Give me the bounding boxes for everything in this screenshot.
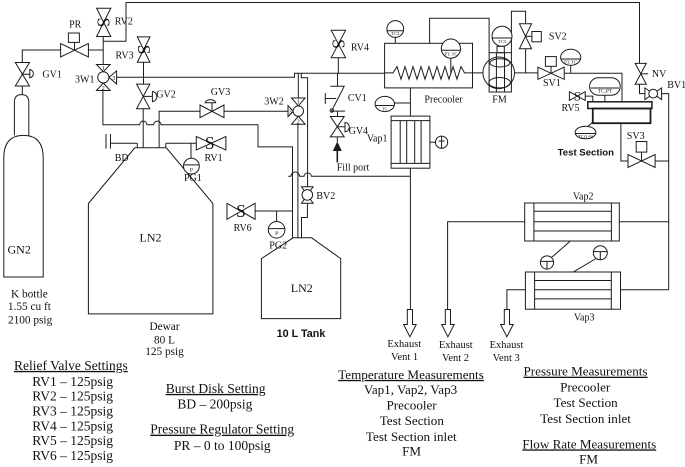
svg-text:SV3: SV3 [627, 131, 645, 142]
svg-text:Vap1: Vap1 [367, 134, 388, 145]
svg-text:PR – 0 to 100psig: PR – 0 to 100psig [174, 438, 271, 453]
svg-text:Vap2: Vap2 [573, 192, 594, 203]
svg-text:Flow Rate Measurements: Flow Rate Measurements [522, 436, 656, 451]
svg-text:RV4: RV4 [351, 43, 369, 54]
svg-text:PR: PR [69, 19, 82, 30]
svg-text:Vap1, Vap2, Vap3: Vap1, Vap2, Vap3 [364, 382, 458, 397]
svg-text:Vent 2: Vent 2 [442, 353, 469, 364]
svg-text:S: S [205, 133, 215, 153]
svg-text:80 L: 80 L [154, 335, 175, 347]
svg-text:S: S [93, 18, 113, 28]
svg-text:BV2: BV2 [316, 191, 335, 202]
svg-text:Test Section: Test Section [554, 395, 619, 410]
svg-text:TC,PT: TC,PT [598, 89, 613, 95]
svg-text:LN2: LN2 [140, 231, 162, 245]
svg-text:TC: TC [382, 106, 388, 111]
svg-text:RV1 – 125psig: RV1 – 125psig [32, 374, 113, 389]
svg-text:S: S [574, 89, 581, 103]
svg-text:3W2: 3W2 [264, 96, 283, 107]
svg-text:FM: FM [492, 95, 507, 106]
svg-text:Vent 1: Vent 1 [391, 352, 418, 363]
svg-text:RV6: RV6 [234, 223, 252, 234]
svg-text:10 L Tank: 10 L Tank [277, 328, 327, 340]
svg-text:2: 2 [297, 119, 300, 125]
svg-text:1.55 cu ft: 1.55 cu ft [8, 301, 52, 313]
svg-text:RV5 – 125psig: RV5 – 125psig [32, 433, 113, 448]
svg-text:Test Section: Test Section [558, 148, 614, 159]
svg-text:Relief Valve Settings: Relief Valve Settings [14, 358, 128, 373]
svg-text:GV2: GV2 [156, 89, 175, 100]
svg-text:Exhaust: Exhaust [439, 340, 473, 351]
svg-text:RV4 – 125psig: RV4 – 125psig [32, 418, 113, 433]
svg-text:3W1: 3W1 [75, 75, 94, 86]
svg-text:Precooler: Precooler [560, 380, 611, 395]
svg-text:BD – 200psig: BD – 200psig [177, 396, 252, 411]
svg-text:Pressure Measurements: Pressure Measurements [524, 364, 648, 379]
svg-text:Precooler: Precooler [387, 398, 438, 413]
svg-text:TC3: TC3 [498, 39, 507, 44]
svg-text:RV2: RV2 [115, 17, 133, 28]
svg-text:TC(1-9): TC(1-9) [578, 134, 594, 139]
svg-text:1: 1 [297, 100, 300, 106]
svg-text:SV2: SV2 [549, 32, 567, 43]
svg-text:3: 3 [289, 110, 292, 116]
svg-text:RV5: RV5 [562, 103, 580, 114]
svg-text:Vap3: Vap3 [574, 313, 595, 324]
svg-text:Test Section: Test Section [380, 413, 445, 428]
svg-text:3: 3 [112, 76, 115, 82]
svg-text:FM: FM [402, 443, 421, 458]
svg-text:2: 2 [102, 86, 105, 92]
svg-text:1: 1 [102, 66, 105, 72]
svg-text:GV4: GV4 [349, 126, 368, 137]
svg-text:FM: FM [579, 452, 598, 467]
svg-text:Precooler: Precooler [424, 95, 463, 106]
svg-text:Exhaust: Exhaust [490, 340, 524, 351]
svg-text:Pressure Regulator Setting: Pressure Regulator Setting [150, 422, 294, 437]
svg-text:Burst Disk Setting: Burst Disk Setting [166, 381, 266, 396]
svg-text:125 psig: 125 psig [145, 346, 184, 358]
svg-text:GV1: GV1 [42, 70, 61, 81]
svg-text:CV1: CV1 [348, 93, 367, 104]
svg-text:S: S [134, 45, 154, 55]
svg-text:Exhaust: Exhaust [387, 339, 421, 350]
svg-text:S: S [328, 39, 348, 49]
svg-text:Fill port: Fill port [337, 163, 370, 174]
svg-text:BV1: BV1 [667, 80, 685, 91]
svg-text:Dewar: Dewar [149, 321, 179, 333]
svg-text:LN2: LN2 [291, 281, 313, 295]
svg-text:PG2: PG2 [269, 241, 287, 252]
svg-text:BD: BD [115, 153, 129, 164]
svg-text:PG1: PG1 [184, 173, 202, 184]
svg-text:RV3: RV3 [116, 51, 134, 62]
svg-text:RV2 – 125psig: RV2 – 125psig [32, 389, 113, 404]
svg-text:GN2: GN2 [8, 243, 31, 257]
svg-text:S: S [236, 201, 246, 221]
svg-text:GV3: GV3 [211, 87, 230, 98]
svg-text:Temperature Measurements: Temperature Measurements [338, 367, 484, 382]
svg-text:Test Section inlet: Test Section inlet [540, 411, 631, 426]
svg-text:TC2: TC2 [391, 31, 400, 36]
svg-text:RV6 – 125psig: RV6 – 125psig [32, 448, 113, 463]
svg-text:Vent 3: Vent 3 [493, 353, 520, 364]
svg-text:2100 psig: 2100 psig [8, 314, 53, 326]
svg-text:RV3 – 125psig: RV3 – 125psig [32, 404, 113, 419]
svg-text:SV1: SV1 [543, 78, 561, 89]
svg-text:RV1: RV1 [205, 153, 223, 164]
svg-text:K bottle: K bottle [11, 289, 48, 301]
svg-text:Test Section inlet: Test Section inlet [366, 429, 457, 444]
svg-text:NV: NV [652, 69, 667, 80]
svg-text:P: P [275, 231, 278, 237]
